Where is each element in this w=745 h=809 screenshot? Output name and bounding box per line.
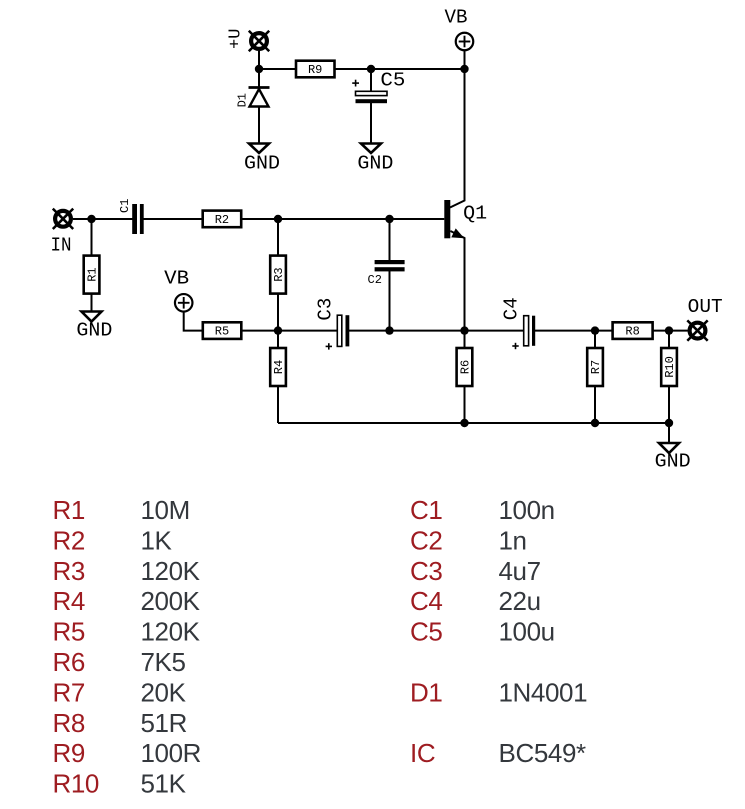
svg-text:C2: C2 [410,525,442,555]
svg-text:R2: R2 [215,213,229,227]
svg-text:GND: GND [244,152,280,174]
svg-text:1n: 1n [499,525,527,555]
svg-text:VB: VB [445,6,468,28]
node junction top rail at C5 [367,65,375,73]
svg-text:R10: R10 [663,356,677,378]
svg-text:R7: R7 [589,360,603,374]
svg-text:C1: C1 [118,199,132,213]
svg-text:R4: R4 [53,586,85,616]
wire C5 branch upper [370,69,372,93]
svg-text:R9: R9 [53,738,85,768]
wire lower rail b [346,330,529,332]
wire R1 branch [91,219,93,312]
svg-text:C5: C5 [410,617,442,647]
svg-text:GND: GND [76,320,112,342]
power VB terminal top [445,6,474,50]
resistor R8 [613,322,653,339]
wire collector [450,69,465,208]
svg-text:GND: GND [655,450,691,472]
svg-text:100u: 100u [499,617,555,647]
svg-text:Q1: Q1 [463,203,487,225]
svg-text:D1: D1 [410,677,442,707]
wire lower rail c [532,330,688,332]
node junction bottom rail at R7 [591,419,599,427]
power VB terminal mid [164,267,192,311]
svg-text:R6: R6 [53,647,85,677]
svg-text:100n: 100n [499,495,555,525]
svg-text:R2: R2 [53,525,85,555]
wire R6 branch [464,331,466,423]
wire input rail left [73,218,137,220]
svg-text:R3: R3 [53,556,85,586]
capacitor C1 [118,199,144,234]
node junction lower rail at R7 [591,326,599,334]
svg-text:R7: R7 [53,677,85,707]
ground bottom right [655,443,691,472]
node junction top rail at VB [460,65,468,73]
svg-text:+U: +U [227,29,246,49]
capacitor C3 [315,298,350,350]
svg-text:R8: R8 [53,708,85,738]
svg-text:51K: 51K [141,769,187,799]
svg-text:1N4001: 1N4001 [499,677,588,707]
svg-text:200K: 200K [141,586,201,616]
svg-text:51R: 51R [141,708,188,738]
ground under R1 [76,312,112,342]
resistor R10 [661,348,677,386]
wire C5 branch lower [370,101,372,144]
terminal IN [51,209,74,257]
svg-text:D1: D1 [236,93,250,107]
wire input rail right [140,218,444,220]
svg-text:100R: 100R [141,738,202,768]
svg-text:VB: VB [164,267,189,289]
wire GND stem bottom [668,423,670,443]
diode D1 [236,88,270,108]
node junction bottom rail at R6 [460,419,468,427]
node junction top rail at D1 [255,65,263,73]
ground under C5 [357,144,393,175]
node junction lower rail at emitter [460,326,468,334]
svg-text:OUT: OUT [688,296,723,318]
wire lower rail a [203,330,341,332]
wire VB mid stem [184,312,203,331]
svg-text:C1: C1 [410,495,442,525]
svg-text:IC: IC [410,738,435,768]
svg-text:R3: R3 [272,267,286,281]
transistor Q1 [444,200,487,238]
wire R4 branch [277,331,279,423]
svg-text:7K5: 7K5 [141,647,186,677]
svg-text:1K: 1K [141,525,173,555]
node junction lower rail at C2 [385,326,393,334]
resistor R4 [270,348,286,386]
resistor R2 [203,211,242,228]
resistor R1 [84,256,100,294]
wire VB stem [464,51,466,69]
node junction input at C2 [385,215,393,223]
resistor R7 [587,348,603,386]
wire bottom rail [278,422,669,424]
wire D1 branch [258,69,260,144]
svg-text:C4: C4 [410,586,442,616]
svg-text:R5: R5 [53,617,85,647]
svg-text:R8: R8 [625,325,639,339]
svg-text:R1: R1 [86,267,100,281]
svg-text:C5: C5 [380,70,405,92]
svg-text:120K: 120K [141,617,201,647]
terminal +U [227,29,270,52]
capacitor C4 [501,297,536,349]
svg-text:R6: R6 [459,360,473,374]
svg-text:22u: 22u [499,586,541,616]
resistor R3 [270,256,286,294]
wire R3 branch [277,219,279,331]
node junction lower rail at R10 [665,326,673,334]
svg-text:C4: C4 [501,297,523,320]
wire C2 branch lower [389,269,391,331]
svg-text:C3: C3 [315,298,337,321]
svg-text:IN: IN [51,234,72,256]
wire R7 branch [594,331,596,423]
wire +U stem [258,51,260,69]
wire top rail [259,68,465,70]
svg-text:BC549*: BC549* [499,738,586,768]
svg-text:R5: R5 [215,325,229,339]
capacitor C5 [352,70,405,104]
svg-text:R10: R10 [53,769,100,799]
node junction input at R3 [274,215,282,223]
svg-text:R1: R1 [53,495,85,525]
svg-text:C2: C2 [368,273,382,287]
svg-text:120K: 120K [141,556,201,586]
wire emitter [450,231,464,331]
wire R10 branch [668,331,670,423]
svg-text:GND: GND [357,152,393,174]
parts list left column [53,495,202,799]
ground under D1 [244,144,280,175]
wire C2 branch upper [389,219,391,262]
svg-text:10M: 10M [141,495,190,525]
resistor R5 [203,322,242,339]
parts list right column [410,495,587,768]
capacitor C2 [368,260,405,287]
svg-text:4u7: 4u7 [499,556,541,586]
svg-text:R9: R9 [308,63,322,77]
svg-text:C3: C3 [410,556,442,586]
resistor R6 [457,348,473,386]
node junction bottom rail at R10 [665,419,673,427]
svg-text:R4: R4 [272,360,286,374]
svg-text:20K: 20K [141,677,187,707]
resistor R9 [296,61,335,78]
node junction lower rail at R3/R4 [274,326,282,334]
terminal OUT [687,296,722,341]
node junction input at R1 [87,215,95,223]
